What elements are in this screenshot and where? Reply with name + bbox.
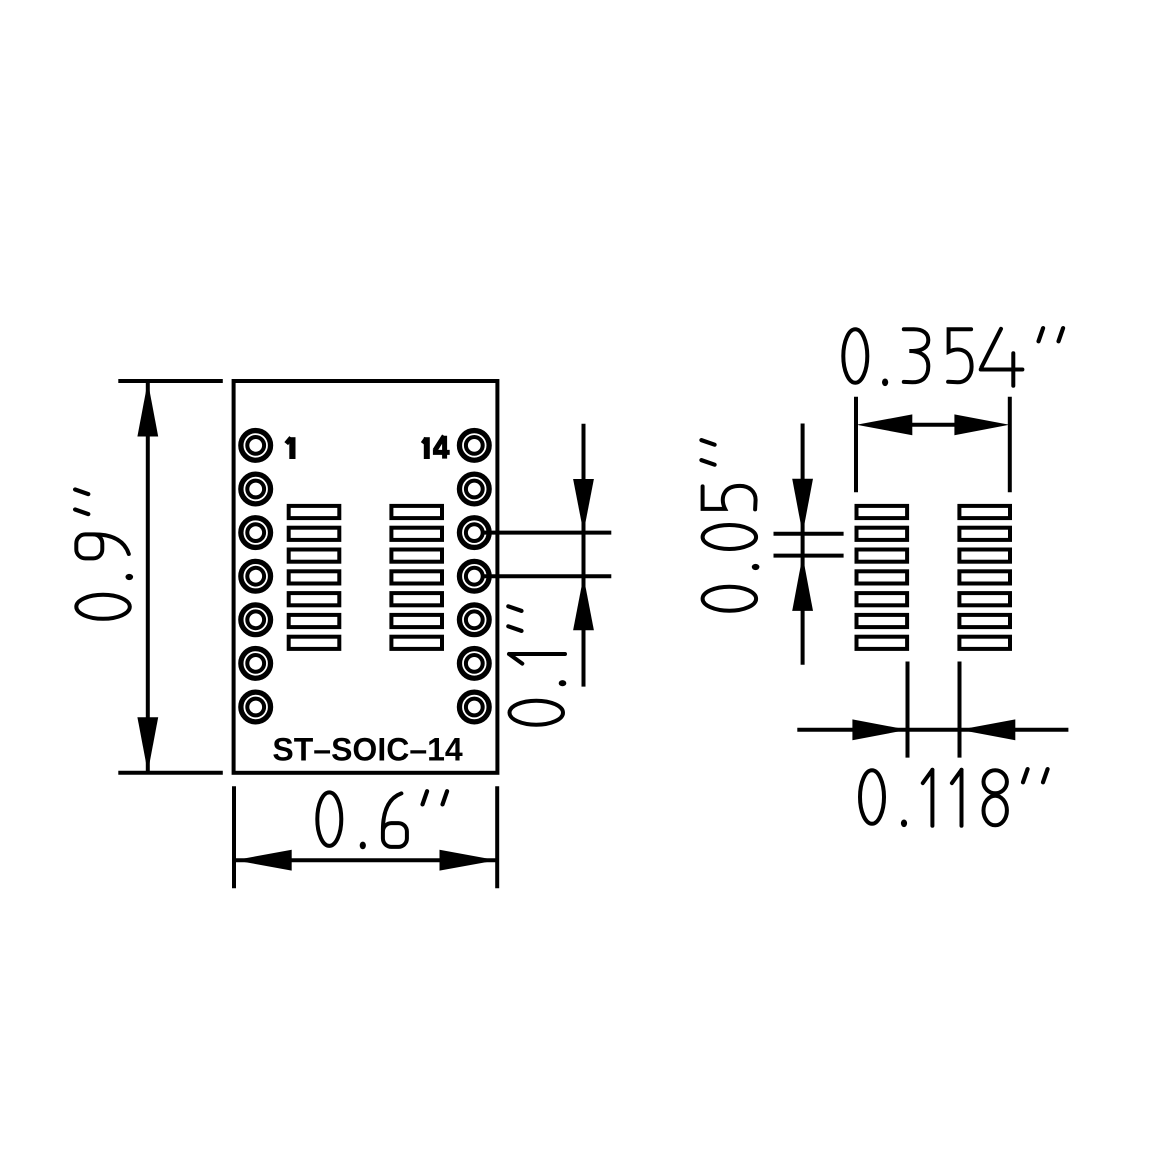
- dimension text 0.9: [75, 490, 133, 619]
- board outline: [234, 381, 498, 773]
- dimension 0.6 arrow right: [440, 850, 497, 871]
- dimension 0.1 arrow down: [573, 479, 594, 533]
- dimension 0.6 right extension line: [495, 786, 499, 888]
- dimension 0.1 lower leader line: [485, 574, 612, 578]
- dimension 0.05 lower leader line: [774, 554, 844, 558]
- dimension 0.05 arrow up: [792, 556, 813, 611]
- dimension 0.118 arrow left: [960, 719, 1016, 740]
- dimension 0.354 arrow right: [954, 414, 1009, 435]
- hole pad 13: [459, 474, 489, 504]
- dimension 0.6 left extension line: [232, 786, 236, 888]
- dimension 0.05 upper leader line: [774, 532, 844, 536]
- hole pad 12: [459, 518, 489, 548]
- dimension 0.118 arrow right: [852, 719, 907, 740]
- hole pad 3: [241, 518, 271, 548]
- dimension 0.05 line: [801, 424, 805, 665]
- hole pad 9: [459, 649, 489, 679]
- dimension 0.1 arrow up: [573, 576, 594, 630]
- pin 1 label: [286, 437, 292, 459]
- dimension 0.1 upper leader line: [485, 531, 612, 535]
- dimension 0.118 left extension line: [906, 662, 910, 758]
- dimension 0.1 line: [582, 424, 586, 687]
- hole pad 8: [459, 692, 489, 722]
- hole pad 7: [241, 692, 271, 722]
- dimension 0.9 arrow down: [137, 717, 158, 772]
- hole pad 5: [241, 605, 271, 635]
- dimension text 0.1: [508, 606, 566, 724]
- hole pad 2: [241, 474, 271, 504]
- hole pad 1: [241, 431, 271, 461]
- dimension 0.6 line: [235, 858, 496, 862]
- detail smd pads left column: [857, 506, 908, 649]
- dimension text 0.354: [843, 328, 1063, 386]
- hole pad 11: [459, 561, 489, 591]
- dimension 0.9 bottom extension line: [118, 771, 223, 775]
- dimension 0.354 arrow left: [857, 414, 913, 435]
- dimension 0.354 right extension line: [1008, 397, 1012, 493]
- smd pads left column: [289, 506, 340, 649]
- pin 14 label: [423, 436, 450, 459]
- dimension 0.118 right extension line: [958, 662, 962, 758]
- hole pad 10: [459, 605, 489, 635]
- dimension 0.9 line: [146, 383, 150, 771]
- detail smd pads right column: [959, 506, 1010, 649]
- dimension 0.118 line: [797, 728, 1068, 732]
- dimension text 0.6: [317, 791, 447, 849]
- dimension 0.354 left extension line: [854, 397, 858, 493]
- dimension 0.9 top extension line: [118, 379, 223, 383]
- hole pad 6: [241, 649, 271, 679]
- svg-text:ST–SOIC–14: ST–SOIC–14: [272, 731, 463, 767]
- dimension 0.9 arrow up: [137, 382, 158, 437]
- dimension 0.05 arrow down: [792, 479, 813, 534]
- hole pad 14: [459, 431, 489, 461]
- dimension text 0.118: [860, 769, 1048, 827]
- dimension text 0.05: [701, 440, 759, 611]
- dimension 0.6 arrow left: [235, 850, 292, 871]
- hole pad 4: [241, 561, 271, 591]
- dimension 0.354 line: [910, 423, 956, 427]
- smd pads right column: [391, 506, 442, 649]
